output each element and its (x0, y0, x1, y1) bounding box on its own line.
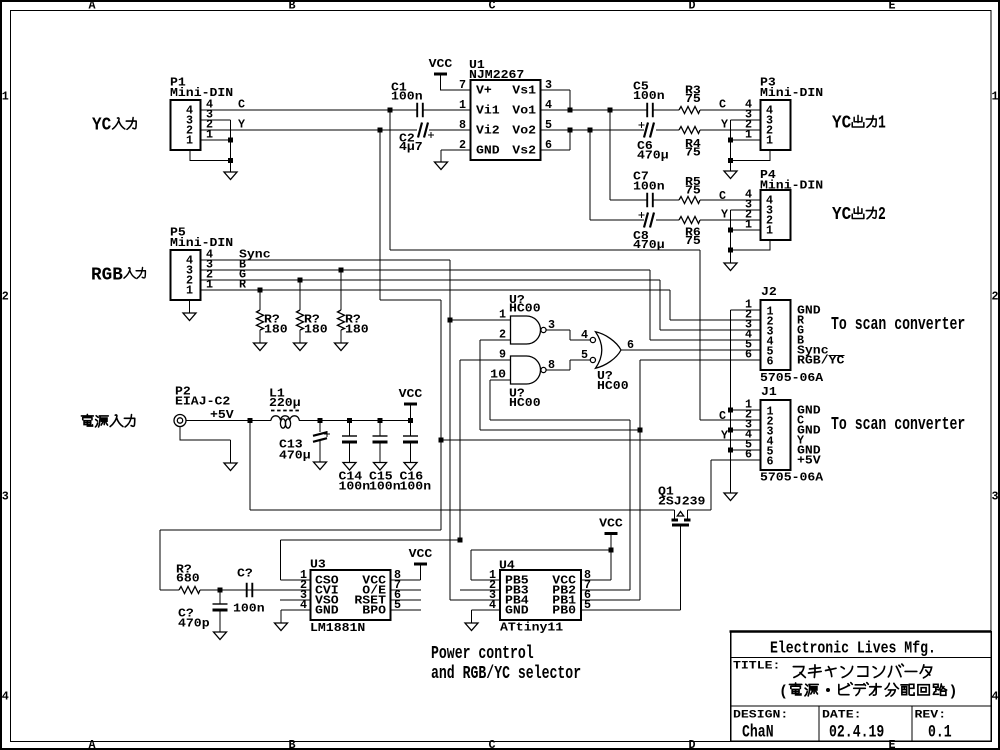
connector J2 body (761, 300, 791, 370)
svg-text:1: 1 (991, 90, 998, 104)
svg-text:Vs1: Vs1 (512, 84, 536, 98)
resistor R? 180 at x=341 (338, 310, 345, 330)
wire (219, 610, 221, 632)
svg-text:1: 1 (186, 284, 193, 298)
wire R6 to P4 pin2 (700, 219, 760, 221)
wire to resistor (299, 280, 301, 310)
svg-text:Y: Y (721, 429, 728, 443)
svg-text:75: 75 (685, 234, 701, 248)
svg-text:+5V: +5V (210, 408, 234, 422)
svg-text:GND: GND (476, 144, 500, 158)
wire P4 pin3 tie (731, 210, 761, 230)
svg-text:2: 2 (991, 290, 998, 304)
svg-text:REV:: REV: (915, 710, 947, 722)
op-amp U1 NJM2267 body (471, 80, 541, 160)
wire J1 pin3 (731, 429, 761, 431)
wire G from P5 pin2 (201, 279, 661, 281)
wire (730, 250, 732, 263)
svg-text:Mini-DIN: Mini-DIN (170, 86, 233, 100)
nand gate U? HC00 (top) (511, 316, 541, 344)
wire U1 GND pin2 (441, 149, 471, 151)
resistor R6 75 (679, 217, 700, 224)
wire P1 pin3 to gnd tie (201, 120, 231, 140)
label 電源入力 (power input) (81, 414, 93, 426)
wire U4 PB5 to VCC net (471, 550, 611, 580)
wire (440, 150, 442, 162)
junction PB5/VCC (609, 548, 614, 553)
wire Sync vertical (449, 260, 451, 600)
svg-text:6: 6 (745, 348, 752, 362)
wire U4 GND (472, 610, 501, 623)
junction node C split (388, 108, 393, 113)
svg-text:7: 7 (459, 78, 466, 92)
svg-text:+5V: +5V (797, 454, 821, 468)
svg-text:BPO: BPO (362, 604, 386, 618)
svg-text:8: 8 (459, 118, 466, 132)
wire (410, 442, 412, 463)
junction C13 (318, 418, 323, 423)
wire R3 to P3 pin4 (700, 109, 760, 111)
wire nand1 out to or gate (546, 330, 590, 340)
svg-text:2: 2 (2, 290, 9, 304)
svg-text:C: C (488, 738, 495, 750)
wire Q1 gate to U4 PB0 (581, 527, 681, 611)
wire Sync from P5 pin4 (201, 259, 451, 261)
wire U3 O/E stub (391, 589, 422, 591)
svg-text:75: 75 (685, 184, 701, 198)
wire U3 RSET stub (391, 599, 422, 601)
svg-text:2SJ239: 2SJ239 (658, 495, 705, 509)
wire U3 VSO stub (280, 599, 311, 601)
svg-text:E: E (888, 0, 895, 13)
wire U1 Vs2 tie (541, 130, 571, 150)
svg-text:Vo2: Vo2 (512, 124, 536, 138)
svg-text:3: 3 (2, 490, 9, 504)
svg-text:VCC: VCC (399, 387, 423, 401)
connector P1 Mini-DIN body (171, 100, 201, 150)
junction GND pin3 (728, 428, 733, 433)
svg-text:LM1881N: LM1881N (310, 621, 365, 635)
capacitor C16 100n (403, 435, 418, 437)
svg-text:C: C (719, 409, 726, 423)
capacitor C? 470p (213, 603, 228, 605)
junction RGB/YC branch (638, 428, 643, 433)
IC U4 ATtiny11 body (500, 570, 581, 620)
ground P4 (724, 263, 737, 271)
svg-text:6: 6 (767, 355, 774, 369)
wire R from P5 pin1 (201, 289, 671, 291)
power VCC symbol at rail (404, 403, 417, 406)
svg-text:2: 2 (499, 328, 506, 342)
wire nand2 pin10 from PB2 (490, 380, 630, 420)
wire P4 shell ground (731, 241, 771, 251)
capacitor C1 100n (417, 103, 423, 117)
wire CSO to gate net (281, 540, 461, 580)
svg-text:4: 4 (581, 328, 588, 342)
junction pulldown at x=300 (298, 278, 303, 283)
wire (730, 140, 732, 161)
junction C out split (608, 108, 613, 113)
Q1 source/drain leads (675, 510, 688, 519)
svg-text:V+: V+ (476, 84, 492, 98)
wire P1 pin4 C to C1 (201, 109, 391, 111)
wire C branch down (389, 110, 391, 250)
wire (410, 421, 412, 437)
junction CSO net (458, 538, 463, 543)
wire nand1 pin2 from RGB/YC net (480, 340, 640, 430)
svg-text:470µ: 470µ (637, 149, 669, 163)
wire Y into J1 pin4 (441, 439, 761, 441)
svg-text:D: D (688, 738, 695, 750)
wire to resistor (340, 270, 342, 310)
svg-text:VCC: VCC (409, 547, 433, 561)
svg-text:1: 1 (2, 90, 9, 104)
capacitor C? 100n series (247, 583, 253, 597)
junction node Y split (378, 128, 383, 133)
svg-text:Mini-DIN: Mini-DIN (760, 179, 823, 193)
svg-text:100n: 100n (633, 89, 665, 103)
svg-text:75: 75 (685, 146, 701, 160)
svg-text:(: ( (779, 684, 788, 701)
wire J1 pin5 (731, 449, 761, 451)
junction pulldown at x=341 (339, 268, 344, 273)
connector P2 EIAJ-C2 jack (174, 415, 186, 427)
svg-text:Mini-DIN: Mini-DIN (170, 236, 233, 250)
IC U3 LM1881N body (311, 570, 391, 620)
junction GND pin5 (728, 448, 733, 453)
resistor R5 75 (679, 197, 700, 204)
svg-text:02.4.19: 02.4.19 (829, 722, 884, 742)
wire (379, 421, 381, 437)
svg-text:B: B (288, 0, 295, 13)
svg-text:220µ: 220µ (269, 396, 301, 410)
svg-text:100n: 100n (369, 480, 401, 494)
svg-text:Y: Y (721, 118, 728, 132)
junction P4 pins1+3 (728, 228, 733, 233)
capacitor C13 470u (313, 432, 327, 442)
svg-text:100n: 100n (400, 480, 432, 494)
title block frame (731, 632, 992, 742)
or gate U? HC00 (negative-input) (596, 332, 622, 368)
ground C13 (314, 462, 327, 470)
wire to resistor (259, 290, 261, 310)
wire through C5 (610, 109, 679, 111)
svg-text:1: 1 (745, 128, 752, 142)
ground P5 (183, 313, 196, 321)
ground pulldown x=341 (335, 343, 348, 351)
wire through C13 (319, 421, 321, 463)
svg-text:YC: YC (92, 114, 111, 135)
resistor R4 75 (679, 127, 700, 134)
wire U4 PB1 (RGB/YC) (581, 599, 640, 601)
svg-text:680: 680 (176, 572, 200, 586)
svg-text:ChaN: ChaN (742, 722, 774, 742)
overline on YC of RGB/YC (829, 355, 845, 357)
svg-text:HC00: HC00 (509, 302, 541, 316)
svg-text:U3: U3 (310, 558, 326, 572)
svg-text:C: C (238, 98, 245, 112)
svg-text:GND: GND (315, 604, 339, 618)
svg-text:Vi1: Vi1 (476, 104, 500, 118)
svg-text:C: C (488, 0, 495, 13)
svg-text:6: 6 (767, 455, 774, 469)
wire (219, 590, 221, 604)
ground J1/J2 (724, 493, 737, 501)
svg-text:Power control: Power control (431, 643, 534, 664)
wire J2 pin1 GND chain (731, 310, 761, 493)
wire to ground (230, 161, 232, 173)
svg-text:180: 180 (345, 323, 369, 337)
svg-text:VCC: VCC (429, 57, 453, 71)
junction 470p (218, 588, 223, 593)
wire C into J1 pin2 (700, 419, 761, 421)
wire through C2 (380, 129, 471, 131)
svg-text:DESIGN:: DESIGN: (733, 710, 788, 722)
title スキャンコンバータ (scan converter) (793, 667, 805, 678)
wire through C7 (610, 199, 679, 201)
connector P4 Mini-DIN body (761, 190, 791, 240)
svg-text:100n: 100n (391, 90, 423, 104)
capacitor C2 4u7 (418, 123, 428, 138)
connector P3 Mini-DIN body (761, 100, 791, 150)
svg-text:75: 75 (685, 92, 701, 106)
svg-text:J1: J1 (761, 385, 777, 399)
junction P3 pins1+3 (728, 138, 733, 143)
svg-text:4: 4 (991, 690, 998, 704)
svg-text:NJM2267: NJM2267 (469, 68, 524, 82)
svg-text:Y: Y (721, 208, 728, 222)
wire VCC stem (410, 405, 412, 421)
wire to ground (340, 330, 342, 343)
wire down to C7 (609, 110, 611, 200)
junction Vs2-Vo2 (568, 128, 573, 133)
svg-text:4: 4 (2, 690, 9, 704)
resistor R? 680 (179, 587, 200, 594)
ground P1 (224, 172, 237, 180)
junction P3 shell (728, 158, 733, 163)
wire Y route down (380, 300, 441, 440)
capacitor C6 470u (644, 123, 654, 138)
power VCC symbol at U1 (434, 73, 447, 76)
svg-text:To scan converter: To scan converter (831, 314, 965, 335)
svg-text:Vo1: Vo1 (512, 104, 536, 118)
wire CSO vertical (459, 360, 461, 540)
wire jack to L1 (186, 420, 271, 422)
wire R to J2 pin2 (670, 290, 760, 320)
junction GND pin1 (728, 408, 733, 413)
wire to ground (299, 330, 301, 343)
junction +5V branch (248, 418, 253, 423)
wire U4 PB0 to Q1 gate (581, 609, 681, 611)
svg-text:VCC: VCC (599, 517, 623, 531)
svg-text:To scan converter: To scan converter (831, 414, 965, 435)
ground 470p (214, 632, 227, 640)
junction C14 (347, 418, 352, 423)
resistor R? 180 at x=300 (297, 310, 304, 330)
svg-text:2: 2 (878, 204, 886, 225)
wire U4 PB2 up (581, 420, 630, 590)
capacitor C15 100n (373, 435, 388, 437)
ground U1 (435, 162, 448, 170)
wire through C8 (590, 219, 679, 221)
junction pulldown at x=260 (258, 288, 263, 293)
wire U1 Vo2 out (541, 129, 591, 131)
svg-text:C?: C? (237, 567, 253, 581)
svg-text:B: B (288, 738, 295, 750)
svg-text:1: 1 (459, 98, 466, 112)
wire C route down (390, 250, 700, 420)
svg-text:GND: GND (505, 604, 529, 618)
wire to ground (259, 330, 261, 343)
svg-text:5705-06A: 5705-06A (760, 371, 824, 385)
capacitor C5 100n (647, 103, 653, 117)
svg-text:1: 1 (766, 224, 773, 238)
wire P5 shell to gnd (189, 301, 191, 314)
junction P1 shell (228, 158, 233, 163)
wire U4 PB3 from CSO net (460, 589, 500, 591)
svg-text:HC00: HC00 (509, 396, 541, 410)
junction Y branch (439, 438, 444, 443)
wire U1 Vs1 tie (541, 90, 571, 110)
wire nand2 pin9 from CSO net (460, 359, 511, 361)
wire U3 BPO stub (391, 609, 422, 611)
junction P4 shell (728, 248, 733, 253)
wire +5V to Q1 (250, 509, 675, 511)
svg-text:A: A (88, 738, 96, 750)
svg-text:100n: 100n (233, 602, 265, 616)
wire Y branch down (379, 130, 381, 300)
wire J1 pin1 (731, 409, 761, 411)
wire P3 shell ground (731, 151, 771, 161)
svg-text:C: C (719, 98, 726, 112)
svg-text:and RGB/YC selector: and RGB/YC selector (431, 663, 581, 684)
svg-text:YC: YC (832, 204, 851, 225)
wire P1 pin2 Y to C2 (201, 129, 381, 131)
svg-text:TITLE:: TITLE: (733, 661, 780, 673)
wire J1 pin6 +5V from Q1 (688, 460, 761, 510)
inductor L1 (271, 410, 299, 412)
wire through C6 (590, 129, 679, 131)
power VCC symbol at U3 (414, 563, 427, 566)
wire (230, 140, 232, 161)
svg-text:): ) (949, 684, 958, 701)
wire R5 to P4 pin4 (700, 199, 760, 201)
wire +5V down to Q1 (249, 421, 251, 511)
svg-text:YC: YC (832, 112, 851, 133)
svg-text:180: 180 (304, 323, 328, 337)
junction Sync to gate (448, 318, 453, 323)
svg-text:DATE:: DATE: (822, 710, 862, 722)
wire R4 to P3 pin2 (700, 129, 760, 131)
svg-text:4µ7: 4µ7 (399, 140, 423, 154)
wire (349, 421, 351, 437)
svg-text:1: 1 (745, 218, 752, 232)
wire B from P5 pin3 (201, 269, 651, 271)
svg-text:1: 1 (878, 112, 886, 133)
ground P3 (724, 171, 737, 179)
svg-text:470p: 470p (178, 617, 210, 631)
nand gate U? HC00 (bottom) (511, 356, 541, 384)
wire VCC to U4 pin8 (581, 535, 611, 580)
svg-text:1: 1 (766, 134, 773, 148)
connector P5 Mini-DIN body (171, 250, 201, 300)
svg-text:Electronic Lives Mfg.: Electronic Lives Mfg. (770, 640, 936, 658)
wire P3 pin3 tie (731, 120, 761, 140)
wire (349, 442, 351, 463)
resistor R3 75 (679, 107, 700, 114)
svg-text:9: 9 (499, 348, 506, 362)
wire (379, 442, 381, 463)
wire P4 pin1 (731, 229, 761, 231)
svg-text:Mini-DIN: Mini-DIN (760, 86, 823, 100)
svg-text:A: A (88, 0, 96, 13)
wire nand2 out to or gate (546, 360, 590, 370)
ground C15 (374, 463, 387, 471)
power VCC symbol at U4 (605, 532, 618, 535)
svg-text:Vi2: Vi2 (476, 124, 500, 138)
junction C16 (408, 418, 413, 423)
svg-text:C: C (719, 189, 726, 203)
wire U3 GND (281, 610, 311, 623)
ground C16 (404, 463, 417, 471)
svg-text:HC00: HC00 (597, 379, 629, 393)
wire RGB/YC from J2 pin6 (640, 360, 761, 600)
junction C15 (378, 418, 383, 423)
wire U4 PB4 from Sync net (450, 599, 500, 601)
wire P1 pin1 (201, 139, 231, 141)
svg-text:1: 1 (499, 308, 506, 322)
wire through C1 (390, 109, 471, 111)
junction Y out split (588, 128, 593, 133)
svg-text:10: 10 (490, 368, 506, 382)
wire sync to nand1 pin1 (450, 319, 511, 321)
capacitor C7 100n (647, 193, 653, 207)
wire U1 Vo1 out (541, 109, 611, 111)
svg-text:100n: 100n (633, 180, 665, 194)
svg-text:470µ: 470µ (279, 449, 311, 463)
ground C14 (343, 463, 356, 471)
wire (730, 161, 732, 172)
capacitor C8 470u (644, 213, 654, 228)
svg-text:PB0: PB0 (552, 604, 576, 618)
ground pulldown x=300 (294, 343, 307, 351)
svg-text:100n: 100n (339, 480, 371, 494)
svg-text:3: 3 (991, 490, 998, 504)
wire jack sleeve to ground (180, 427, 231, 464)
wire VCC to U1 pin7 (441, 75, 471, 90)
svg-text:U4: U4 (499, 559, 515, 573)
svg-text:EIAJ-C2: EIAJ-C2 (175, 395, 230, 409)
svg-text:180: 180 (264, 323, 288, 337)
capacitor C14 100n (342, 435, 357, 437)
ground U3 (275, 623, 288, 631)
wire VCC rail (299, 420, 410, 422)
svg-text:5: 5 (581, 348, 588, 362)
wire U3 VCC pin8 (391, 565, 421, 580)
ground U4 (465, 623, 478, 631)
svg-text:1: 1 (186, 134, 193, 148)
svg-text:E: E (888, 738, 895, 750)
wire B to J2 pin4 (650, 270, 760, 340)
svg-text:J2: J2 (761, 285, 777, 299)
wire to U3 CVI (200, 589, 311, 591)
wire Y to sync sep (160, 440, 441, 590)
svg-text:Y: Y (238, 118, 245, 132)
svg-text:0.1: 0.1 (928, 722, 952, 742)
junction P1 pins1+3 (228, 138, 233, 143)
svg-text:D: D (688, 0, 695, 13)
junction Vs1-Vo1 (568, 108, 573, 113)
